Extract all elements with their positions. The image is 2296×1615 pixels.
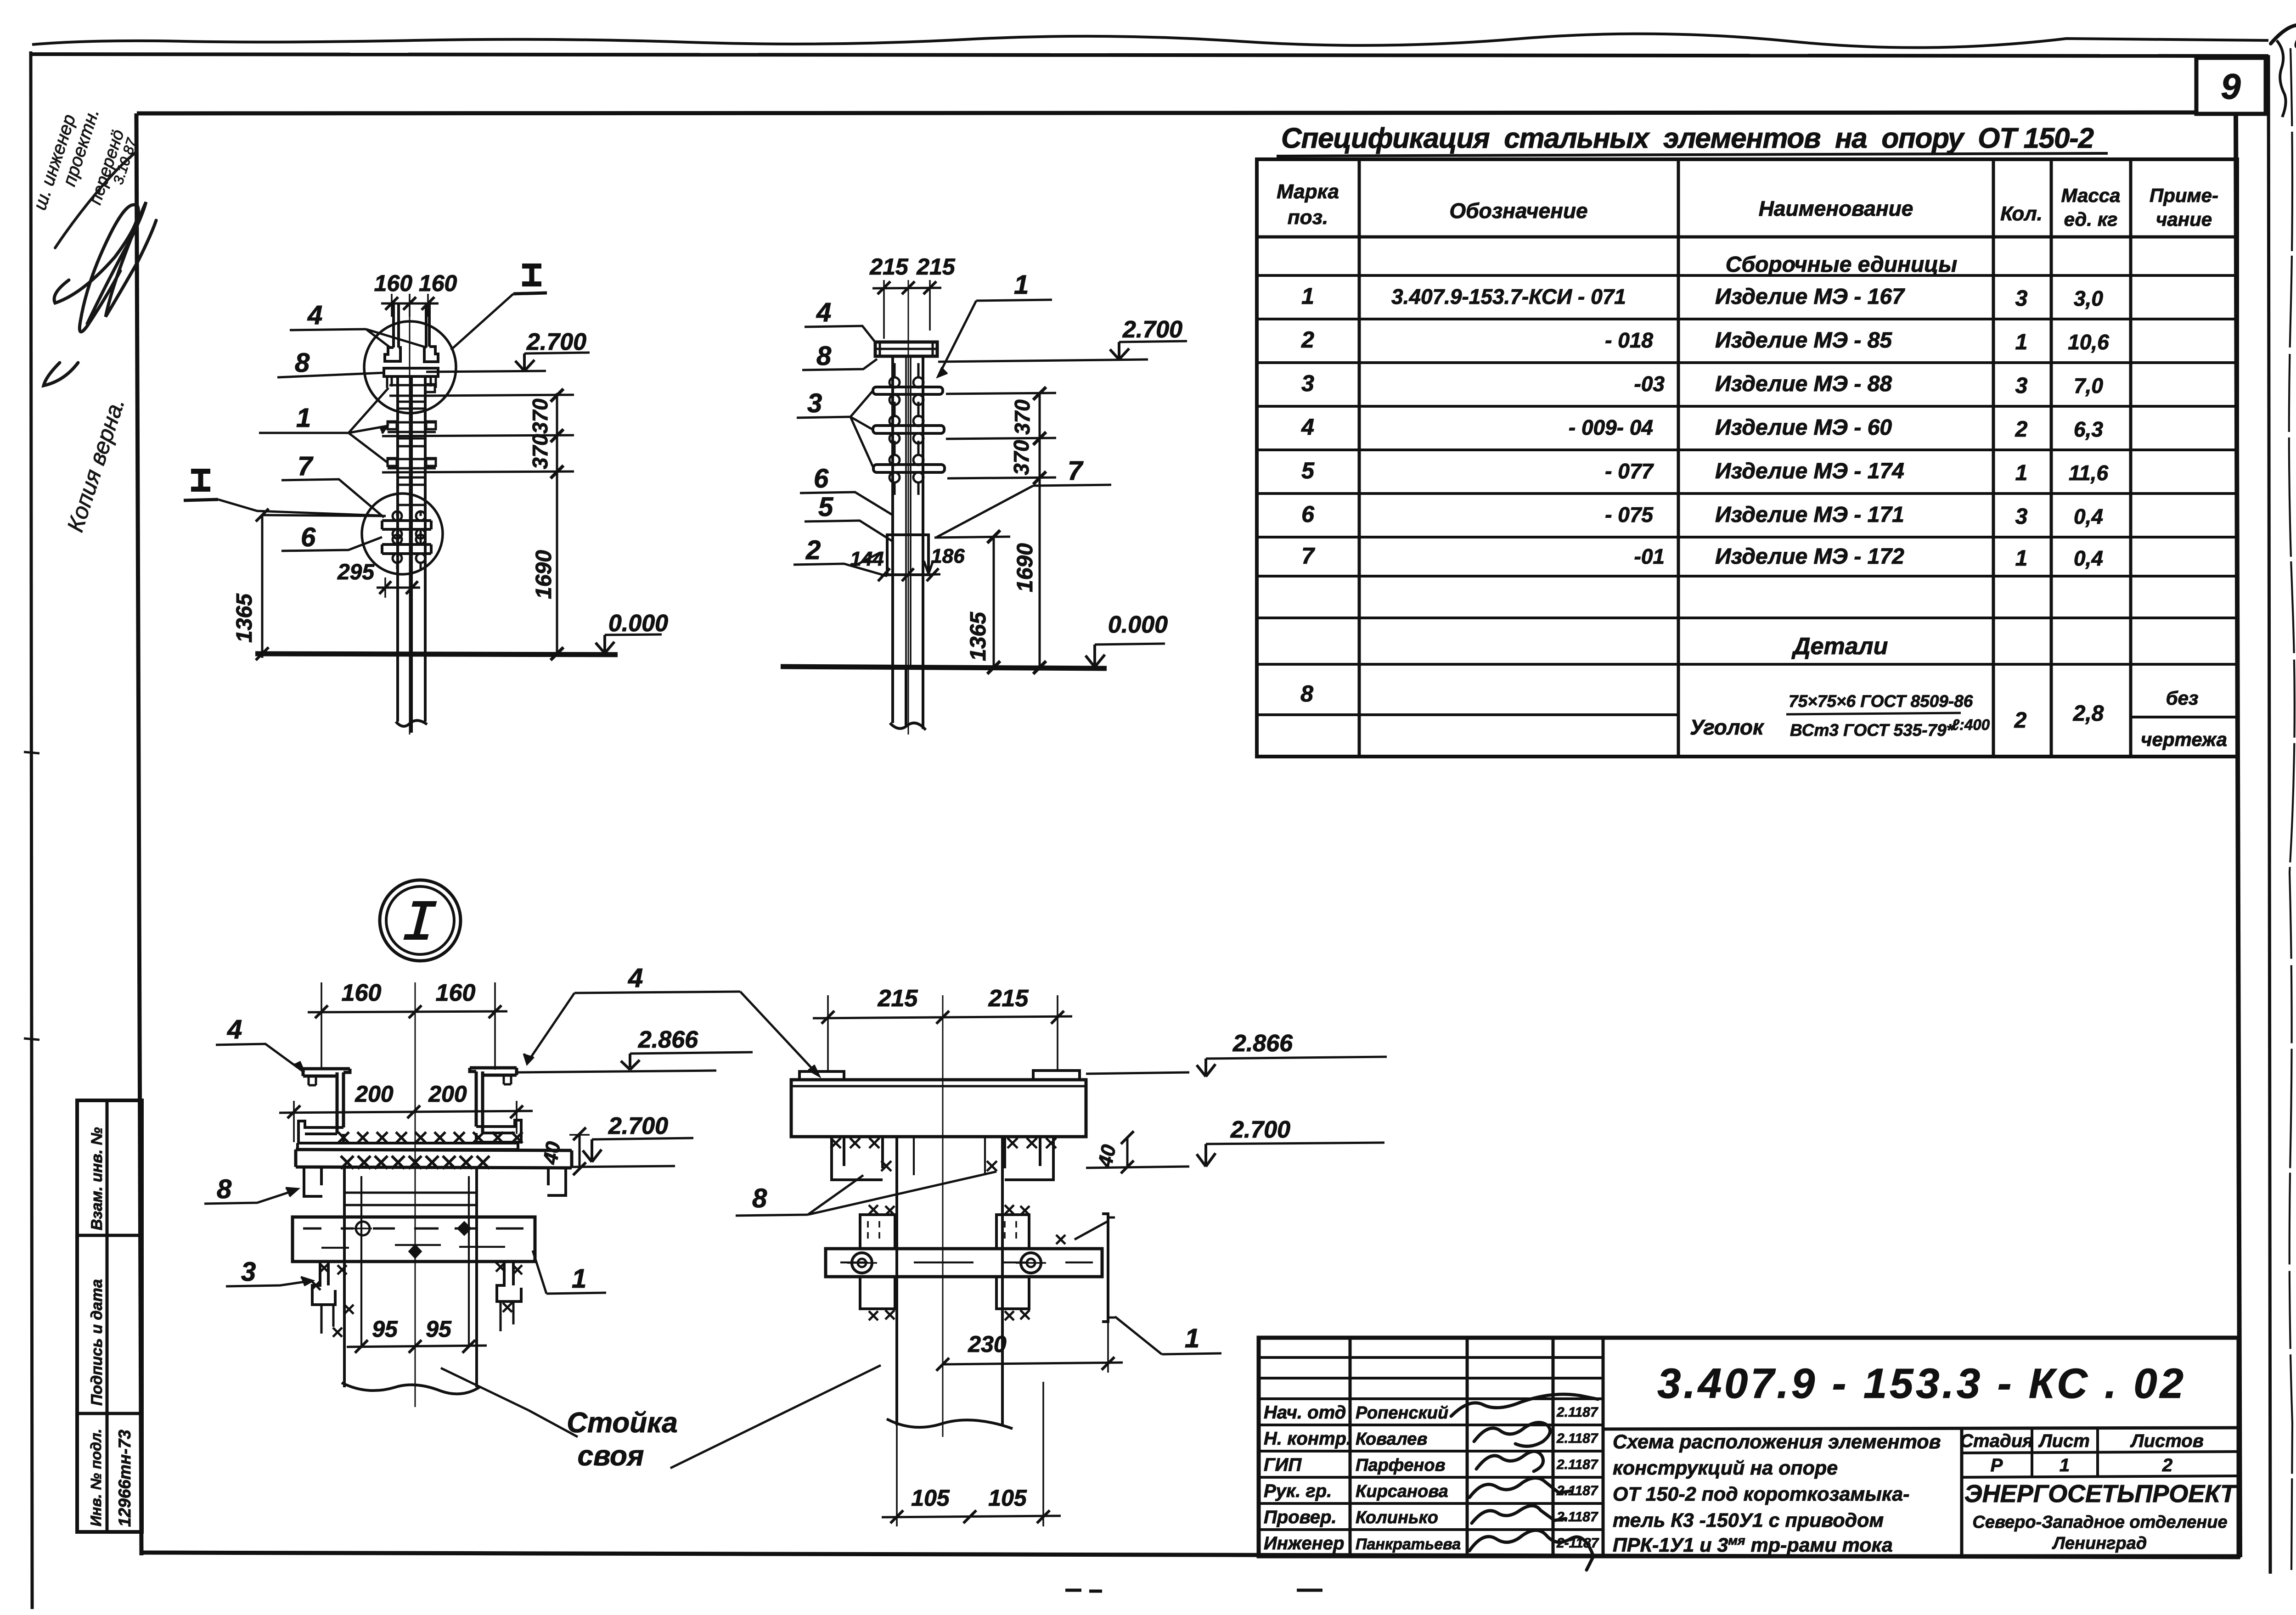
detail R top slab [791, 1080, 1086, 1137]
svg-text:160: 160 [342, 980, 382, 1006]
svg-text:105: 105 [911, 1485, 950, 1511]
svg-text:370: 370 [1009, 440, 1033, 475]
svg-text:ПРК-1У1 и 3мя тр-рами тока: ПРК-1У1 и 3мя тр-рами тока [1613, 1533, 1893, 1557]
svg-text:Изделие МЭ - 172: Изделие МЭ - 172 [1715, 544, 1904, 569]
svg-text:3: 3 [2015, 505, 2028, 529]
svg-text:чание: чание [2156, 208, 2212, 230]
svg-text:Изделие МЭ - 85: Изделие МЭ - 85 [1715, 328, 1892, 353]
svg-text:1: 1 [572, 1264, 586, 1294]
svg-text:1: 1 [2015, 546, 2028, 571]
left elevation lower assembly plate 7 [382, 521, 431, 529]
right elevation pole shaft [893, 356, 923, 668]
svg-text:- 018: - 018 [1605, 328, 1653, 352]
margin boxes frame [77, 1100, 142, 1532]
fold mark left margin lower [24, 1038, 39, 1040]
right elevation insulator bolts and rods [889, 377, 900, 387]
svg-text:160 160: 160 160 [374, 270, 457, 296]
right elevation buried pole and break [893, 668, 923, 729]
outer frame top [30, 54, 2268, 56]
svg-text:Ковалев: Ковалев [1356, 1430, 1427, 1449]
svg-text:2: 2 [2162, 1455, 2172, 1475]
svg-text:Н. контр.: Н. контр. [1264, 1429, 1351, 1449]
svg-text:215: 215 [916, 254, 956, 280]
svg-text:370: 370 [1010, 399, 1034, 435]
svg-text:6: 6 [1301, 501, 1315, 527]
svg-text:1: 1 [1014, 270, 1029, 300]
svg-text:ГИП: ГИП [1264, 1455, 1302, 1475]
svg-text:4: 4 [1301, 414, 1314, 440]
svg-text:10,6: 10,6 [2068, 330, 2109, 354]
right elevation center axis [908, 280, 909, 735]
svg-text:3.407.9 - 153.3 - КС . 02: 3.407.9 - 153.3 - КС . 02 [1657, 1360, 2186, 1407]
detail R beam bar [826, 1249, 1102, 1277]
svg-text:ВСт3 ГОСТ 535-79*: ВСт3 ГОСТ 535-79* [1790, 721, 1954, 740]
svg-text:Рук. гр.: Рук. гр. [1264, 1481, 1332, 1501]
svg-text:Обозначение: Обозначение [1449, 199, 1587, 223]
svg-text:Изделие МЭ - 174: Изделие МЭ - 174 [1715, 459, 1904, 483]
detail R angle brackets item8 [832, 1137, 883, 1180]
svg-text:370: 370 [528, 398, 552, 434]
title block signature row lines [1259, 1356, 1603, 1359]
left elevation dim 160-160 line [381, 303, 439, 305]
svg-text:Масса: Масса [2061, 185, 2121, 206]
svg-text:конструкций на опоре: конструкций на опоре [1613, 1457, 1838, 1479]
detail L channel left [303, 1069, 350, 1076]
svg-text:Уголок: Уголок [1690, 715, 1765, 739]
svg-text:Детали: Детали [1791, 633, 1888, 660]
svg-text:215: 215 [878, 985, 918, 1012]
svg-text:2: 2 [2015, 417, 2028, 442]
left elevation dim 1365 [261, 515, 264, 658]
right elevation ground line [781, 667, 1107, 668]
svg-text:75×75×6 ГОСТ 8509-86: 75×75×6 ГОСТ 8509-86 [1789, 692, 1973, 711]
svg-text:160: 160 [436, 980, 476, 1006]
svg-text:7: 7 [1301, 543, 1315, 569]
spec table row8 partial split lines [1257, 713, 1678, 716]
svg-text:200: 200 [355, 1081, 394, 1107]
svg-text:7: 7 [298, 451, 314, 481]
svg-text:1: 1 [1301, 283, 1314, 309]
svg-text:1: 1 [2015, 461, 2028, 485]
svg-text:200: 200 [428, 1081, 467, 1107]
detail L channel right [470, 1068, 517, 1075]
detail view marker I [380, 880, 461, 961]
svg-text:0,4: 0,4 [2074, 546, 2103, 570]
left elevation pole rungs [398, 401, 425, 403]
left elevation upper detail circle [364, 321, 456, 413]
detail R clamp welds [869, 1205, 878, 1214]
detail R clamp lower blocks [860, 1277, 895, 1309]
svg-text:0.000: 0.000 [608, 610, 668, 637]
svg-text:ед. кг: ед. кг [2064, 208, 2118, 230]
detail L pole horizontal joints [344, 1193, 477, 1205]
svg-text:370: 370 [528, 434, 552, 469]
title block doc number cell line [1603, 1428, 2239, 1429]
svg-text:9: 9 [2221, 66, 2241, 107]
right elevation dim 215-215 line [872, 288, 941, 288]
svg-text:своя: своя [578, 1440, 644, 1472]
title block stadia grid [1962, 1452, 2239, 1477]
svg-text:2.700: 2.700 [1230, 1116, 1290, 1143]
svg-text:Кирсанова: Кирсанова [1356, 1482, 1448, 1501]
svg-text:1: 1 [2015, 330, 2028, 354]
detail R dim 40 [1126, 1138, 1129, 1167]
svg-text:Ленинград: Ленинград [2052, 1534, 2147, 1553]
svg-text:3: 3 [241, 1257, 256, 1287]
right elevation crossarm plate 2 [873, 426, 944, 433]
svg-text:Приме-: Приме- [2150, 185, 2218, 206]
fold mark left margin upper [24, 752, 39, 753]
section mark I lower (left elev) [191, 469, 210, 492]
svg-text:3: 3 [2015, 374, 2028, 398]
svg-text:40: 40 [1094, 1143, 1120, 1170]
svg-text:Марка: Марка [1277, 180, 1339, 203]
svg-text:ЭНЕРГОСЕТЬПРОЕКТ: ЭНЕРГОСЕТЬПРОЕКТ [1964, 1480, 2237, 1508]
svg-text:230: 230 [968, 1331, 1007, 1357]
paper right edge wavy [2289, 48, 2295, 1570]
svg-text:Колинько: Колинько [1356, 1508, 1438, 1527]
svg-text:ℓ:400: ℓ:400 [1952, 716, 1990, 733]
svg-text:215: 215 [869, 254, 909, 280]
svg-text:8: 8 [816, 341, 832, 371]
svg-text:6: 6 [301, 522, 316, 552]
svg-text:0,4: 0,4 [2074, 505, 2103, 528]
svg-text:Изделие МЭ - 88: Изделие МЭ - 88 [1715, 372, 1892, 396]
detail L beam item1 [293, 1217, 535, 1262]
detail R center axis [942, 995, 944, 1437]
svg-text:7: 7 [1068, 456, 1084, 486]
svg-text:Изделие МЭ - 60: Изделие МЭ - 60 [1715, 415, 1892, 440]
title block signature column lines [1349, 1338, 1352, 1556]
right elevation dim 1365 [993, 537, 995, 668]
outer frame left [31, 51, 32, 1609]
detail R side plate [1102, 1214, 1108, 1322]
svg-text:5: 5 [818, 492, 833, 522]
svg-text:Стадия: Стадия [1960, 1431, 2033, 1451]
detail L weld row bottom [341, 1156, 354, 1169]
svg-text:1: 1 [1185, 1323, 1199, 1353]
svg-text:Ропенский: Ропенский [1356, 1403, 1448, 1423]
outer frame right [2268, 55, 2270, 1574]
detail L center axis [415, 982, 416, 1407]
svg-text:Взам. инв. №: Взам. инв. № [88, 1127, 106, 1230]
svg-text:3: 3 [1301, 370, 1314, 396]
svg-text:- 009- 04: - 009- 04 [1569, 415, 1653, 439]
misc bottom dashes [24, 752, 1322, 1591]
svg-text:1365: 1365 [966, 611, 990, 661]
inner frame left [136, 113, 141, 1555]
detail L weld row top [338, 1132, 349, 1143]
svg-text:чертежа: чертежа [2141, 729, 2227, 750]
detail R weld marks under slab [831, 1138, 841, 1148]
detail L pole break [342, 1383, 479, 1394]
left elevation cap plate 8 [384, 368, 438, 376]
svg-text:2: 2 [2014, 708, 2027, 733]
svg-text:95: 95 [426, 1316, 452, 1342]
right elevation crossarm plate 1 [873, 387, 943, 394]
svg-text:Изделие МЭ - 167: Изделие МЭ - 167 [1715, 285, 1905, 309]
left elevation clamp band 3 [388, 459, 436, 468]
svg-text:5: 5 [1301, 458, 1315, 483]
pen scribble top right corner [2271, 25, 2296, 85]
detail L beam bolts [356, 1222, 370, 1235]
svg-text:12966тн-73: 12966тн-73 [115, 1430, 134, 1527]
svg-text:Схема расположения элементов: Схема расположения элементов [1613, 1431, 1941, 1453]
svg-text:2.1187: 2.1187 [1556, 1457, 1598, 1472]
svg-text:2.866: 2.866 [1232, 1030, 1293, 1057]
detail L pole [344, 1168, 477, 1387]
left elevation lower assembly bolts [393, 511, 402, 521]
svg-text:-01: -01 [1634, 544, 1665, 568]
svg-text:Кол.: Кол. [2000, 202, 2043, 225]
detail R pole break [887, 1419, 1013, 1429]
svg-text:1: 1 [296, 403, 311, 433]
svg-text:3.407.9-153.7-КСИ - 071: 3.407.9-153.7-КСИ - 071 [1391, 285, 1626, 308]
detail R beam bolts [852, 1253, 872, 1273]
svg-text:186: 186 [931, 545, 965, 567]
inner frame right [2236, 115, 2240, 1557]
detail R pole [897, 1137, 1002, 1425]
spec table outer frame [1257, 159, 2237, 757]
left elevation channel 4 right [426, 303, 429, 348]
svg-text:4: 4 [628, 963, 643, 993]
svg-text:8: 8 [752, 1183, 767, 1213]
svg-text:1365: 1365 [232, 593, 257, 643]
handwriting signature flourish [54, 205, 138, 332]
svg-text:Инженер: Инженер [1264, 1533, 1344, 1553]
svg-text:- 075: - 075 [1605, 503, 1654, 527]
svg-text:2.866: 2.866 [638, 1026, 698, 1053]
spec table row lines [1257, 236, 2237, 239]
svg-text:0.000: 0.000 [1108, 611, 1168, 638]
section mark I upper (left elev) [522, 264, 541, 286]
svg-text:Северо-Западное отделение: Северо-Западное отделение [1972, 1513, 2227, 1532]
detail L cap plate 8 [298, 1143, 518, 1150]
svg-text:2.1187: 2.1187 [1556, 1509, 1598, 1525]
svg-text:215: 215 [988, 985, 1029, 1012]
left elevation lower assembly plate 6 [382, 544, 431, 554]
spec table column lines [1358, 159, 1361, 757]
inner frame bottom [141, 1553, 2240, 1557]
detail L clamp left item3 [312, 1262, 335, 1305]
svg-text:105: 105 [988, 1485, 1027, 1511]
signatures squiggles [1451, 1394, 1598, 1570]
svg-text:3: 3 [807, 388, 822, 418]
svg-text:2.700: 2.700 [1122, 316, 1182, 343]
svg-text:11,6: 11,6 [2069, 461, 2109, 485]
left elevation clamp band 2 [388, 422, 436, 432]
right elevation base sleeve item2 [887, 535, 929, 575]
svg-text:2.700: 2.700 [526, 329, 586, 355]
svg-text:Листов: Листов [2130, 1431, 2204, 1451]
detail L dim 40 [579, 1134, 581, 1169]
svg-text:Изделие МЭ - 171: Изделие МЭ - 171 [1715, 503, 1904, 527]
svg-text:295: 295 [337, 560, 375, 584]
svg-text:Парфенов: Парфенов [1356, 1456, 1446, 1475]
svg-text:8: 8 [1300, 681, 1313, 707]
paper top edge wavy [32, 34, 2268, 48]
svg-text:4: 4 [307, 300, 322, 330]
title block frame [1259, 1338, 2239, 1556]
svg-text:6,3: 6,3 [2074, 417, 2103, 441]
svg-text:3,0: 3,0 [2074, 286, 2103, 310]
detail L clamp right item3 [497, 1262, 521, 1301]
right elevation crossarm plate 3 [873, 465, 945, 472]
svg-text:8: 8 [217, 1174, 232, 1204]
svg-text:Спецификация стальных элемен: Спецификация стальных элементов на опору… [1281, 123, 2094, 154]
svg-text:Нач. отд: Нач. отд [1264, 1402, 1346, 1423]
svg-text:7,0: 7,0 [2074, 374, 2103, 398]
svg-text:2.1187: 2.1187 [1556, 1405, 1598, 1420]
left elevation clamp band 1 [389, 385, 434, 396]
inner frame top [137, 112, 2196, 113]
svg-text:- 077: - 077 [1605, 459, 1654, 483]
detail R clamp upper blocks [860, 1215, 895, 1249]
left elevation pole shaft [398, 376, 425, 655]
svg-text:2: 2 [1301, 327, 1314, 353]
detail R slab top tabs [799, 1071, 1080, 1080]
svg-text:4: 4 [816, 297, 831, 327]
left elevation center axis [409, 294, 411, 735]
svg-text:Панкратьева: Панкратьева [1356, 1536, 1461, 1553]
detail L angle ends under plate [304, 1167, 322, 1196]
svg-text:1690: 1690 [532, 550, 556, 599]
svg-text:тель К3 -150У1 с приводом: тель К3 -150У1 с приводом [1613, 1509, 1884, 1531]
svg-text:Наименование: Наименование [1759, 196, 1913, 220]
svg-text:1690: 1690 [1013, 543, 1037, 592]
svg-text:2: 2 [805, 535, 821, 565]
svg-text:95: 95 [372, 1316, 398, 1342]
svg-text:2.1187: 2.1187 [1556, 1431, 1598, 1446]
svg-text:2.700: 2.700 [608, 1113, 668, 1139]
left elevation lower detail circle [362, 493, 443, 574]
svg-text:без: без [2166, 687, 2199, 709]
svg-text:3: 3 [2015, 286, 2028, 311]
svg-text:Провер.: Провер. [1264, 1507, 1337, 1527]
svg-text:8: 8 [295, 348, 310, 378]
right elevation dim 370-370 [1039, 393, 1041, 668]
svg-text:Р: Р [1991, 1455, 2003, 1475]
svg-text:Стойка: Стойка [567, 1407, 678, 1439]
detail L clamp welds [320, 1263, 329, 1273]
svg-text:-03: -03 [1634, 372, 1665, 396]
page number 9 box [2196, 58, 2266, 114]
svg-text:ОТ 150-2 под короткозамыка-: ОТ 150-2 под короткозамыка- [1613, 1483, 1909, 1505]
left elevation channel 4 left [394, 303, 399, 348]
svg-text:Лист: Лист [2038, 1431, 2090, 1451]
svg-text:поз.: поз. [1288, 206, 1328, 229]
left elevation ground line [255, 654, 618, 655]
svg-text:1: 1 [2060, 1455, 2070, 1475]
svg-text:Сборочные единицы: Сборочные единицы [1726, 252, 1958, 277]
svg-text:6: 6 [814, 464, 829, 493]
svg-text:40: 40 [539, 1140, 565, 1166]
svg-text:2,8: 2,8 [2073, 701, 2104, 726]
right elevation top flange item4 [875, 342, 937, 356]
left elevation dim 370-370 [556, 393, 558, 655]
svg-text:4: 4 [227, 1015, 242, 1044]
left elevation buried pole and break [398, 655, 425, 733]
svg-text:Инв. № подл.: Инв. № подл. [88, 1429, 104, 1526]
svg-text:Подпись и дата: Подпись и дата [88, 1279, 106, 1406]
title block description/right divider [1960, 1429, 1964, 1556]
